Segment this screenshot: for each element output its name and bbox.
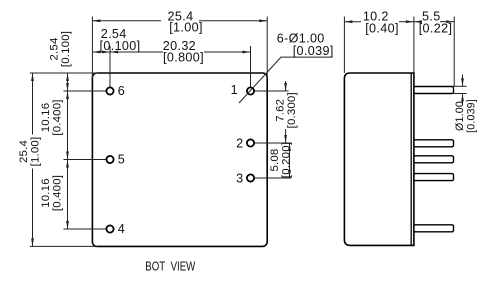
svg-text:5.08: 5.08 xyxy=(269,149,281,172)
svg-text:6: 6 xyxy=(118,84,125,98)
svg-text:[1.00]: [1.00] xyxy=(30,137,42,167)
svg-text:[0.039]: [0.039] xyxy=(293,44,334,58)
svg-text:2: 2 xyxy=(236,137,243,151)
svg-text:[0.100]: [0.100] xyxy=(100,39,141,53)
svg-text:25.4: 25.4 xyxy=(18,140,30,163)
svg-text:[0.400]: [0.400] xyxy=(52,99,64,135)
svg-text:3: 3 xyxy=(236,172,243,186)
svg-text:[0.039]: [0.039] xyxy=(465,99,477,133)
svg-text:[1.00]: [1.00] xyxy=(169,21,203,35)
svg-text:4: 4 xyxy=(118,222,125,236)
svg-text:[0.300]: [0.300] xyxy=(286,92,298,128)
svg-text:5: 5 xyxy=(118,153,125,167)
svg-text:[0.100]: [0.100] xyxy=(60,31,72,67)
svg-text:BOT VIEW: BOT VIEW xyxy=(145,260,195,274)
svg-text:[0.22]: [0.22] xyxy=(419,22,453,36)
svg-text:10.16: 10.16 xyxy=(40,178,52,208)
svg-text:Ø1.00: Ø1.00 xyxy=(454,101,466,131)
svg-text:[0.400]: [0.400] xyxy=(52,175,64,211)
svg-text:2.54: 2.54 xyxy=(48,38,60,61)
svg-text:[0.800]: [0.800] xyxy=(163,51,204,65)
svg-text:[0.200]: [0.200] xyxy=(280,142,292,178)
svg-text:[0.40]: [0.40] xyxy=(365,22,399,36)
svg-text:1: 1 xyxy=(231,83,238,97)
svg-text:10.16: 10.16 xyxy=(40,103,52,133)
svg-text:7.62: 7.62 xyxy=(275,99,287,122)
